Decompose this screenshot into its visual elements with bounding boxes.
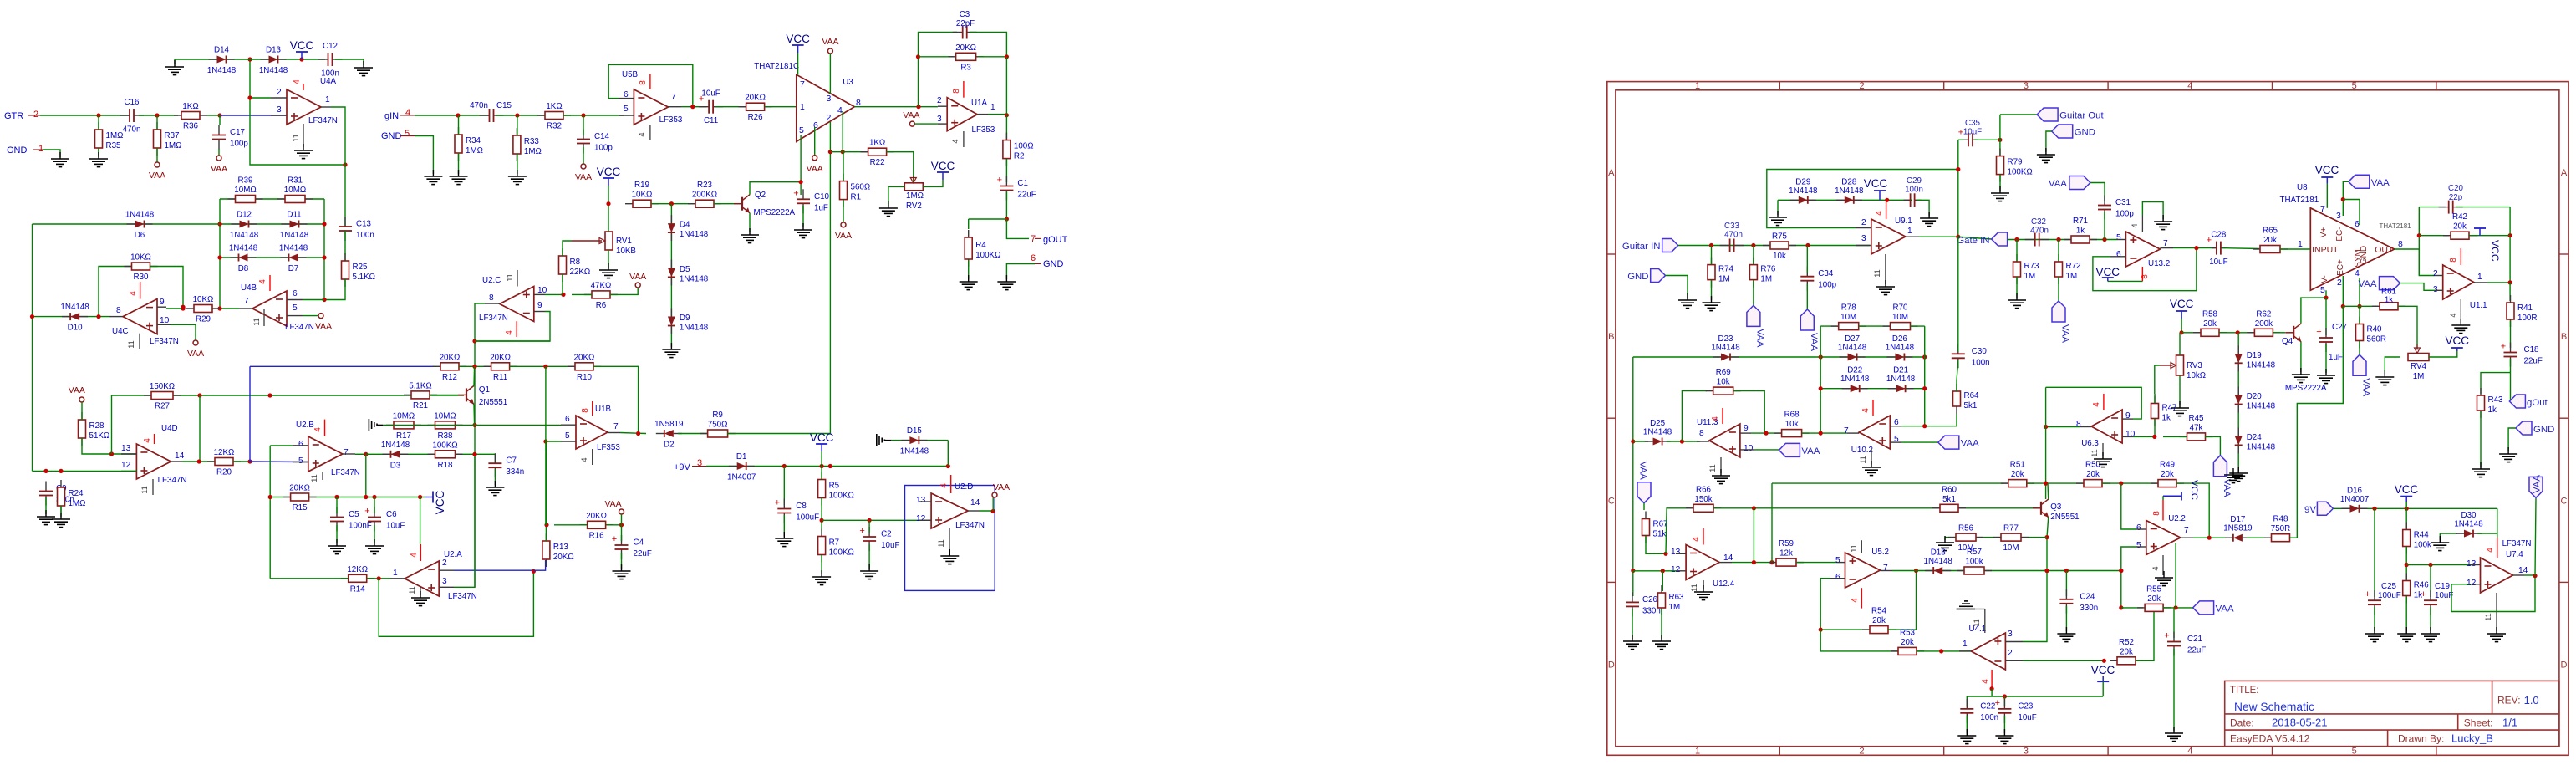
junction [515,113,519,117]
svg-text:+: + [2164,631,2169,641]
wire C34 top [1806,246,1808,273]
svg-text:1M: 1M [2413,372,2425,381]
wire blue to R13 [533,560,545,570]
junction [217,222,221,226]
svg-text:VCC: VCC [2170,298,2194,310]
wire U8 pin5 down [2325,290,2327,298]
title block box [2225,681,2559,746]
ground under C8 [775,532,793,547]
svg-text:4: 4 [2187,747,2192,757]
svg-text:11: 11 [506,273,514,282]
diode D14 [207,45,237,75]
wire pin12 row [1633,570,1676,572]
wire to R58 [2181,332,2201,334]
wire R69 right [1733,391,1764,433]
wire C7 to ground [494,469,496,485]
junction [799,180,803,184]
resistor R51 [2001,461,2034,487]
wire RV2 left lead [889,186,904,187]
svg-text:200KΩ: 200KΩ [692,191,717,200]
svg-text:RV1: RV1 [616,237,632,246]
svg-text:V-: V- [2320,275,2329,283]
resistor R31 [277,176,313,203]
wire U4D pin12 row [33,470,137,472]
wire R3 right [978,56,1006,58]
junction [2508,280,2512,284]
wire R74 gnd [1711,280,1713,300]
ground left of D30 [2431,536,2449,551]
svg-text:5: 5 [565,431,570,441]
frame inner [1616,90,2559,747]
junction [2119,569,2123,573]
svg-text:4: 4 [2449,313,2457,317]
svg-text:4: 4 [1851,598,1860,603]
svg-text:5: 5 [2136,541,2141,550]
svg-text:5: 5 [2116,233,2121,242]
svg-text:VCC: VCC [931,160,955,172]
wire R16 left stub [554,524,587,526]
wire VAA to R28 [81,402,83,420]
junction [322,255,326,259]
wire R2 to C1 [1005,159,1007,182]
svg-text:C21: C21 [2187,635,2202,644]
svg-text:U6.3: U6.3 [2081,439,2099,448]
wire R3 left [919,56,955,58]
svg-text:1N4148: 1N4148 [900,447,929,456]
svg-text:D20: D20 [2247,392,2263,401]
svg-text:470n: 470n [123,125,141,135]
svg-text:5k1: 5k1 [1942,495,1956,504]
net flag GND top [2052,125,2095,138]
wire D10 row [33,316,110,318]
wire R37 to VAA [156,148,158,162]
junction [181,306,185,310]
resistor R27 [144,382,181,411]
svg-text:100nF: 100nF [349,522,372,531]
resistor R13 [542,533,574,567]
junction [59,469,63,473]
svg-text:R64: R64 [1964,391,1980,400]
svg-text:100n: 100n [321,69,339,79]
wire VCC to row [2102,681,2104,696]
capacitor C2 [859,526,899,551]
svg-text:C23: C23 [2018,701,2034,711]
net flag VAA under R40 [2353,354,2371,396]
wire VAA to U3 pin3 [829,54,831,94]
svg-text:D17: D17 [2230,515,2245,524]
wire C2 gnd [868,544,870,569]
labels C32 [2030,217,2049,236]
ground right of C12 [354,61,373,76]
junction [2180,330,2184,334]
svg-text:R29: R29 [196,315,211,324]
diode D21 [1886,366,1916,393]
wire C23 gnd [2003,716,2005,733]
wire D23/D27/D26 row [1633,356,1926,358]
net flag GTR [4,110,40,121]
svg-text:1M: 1M [1718,275,1730,284]
wire U2.2 pin5 down [2121,547,2136,608]
wire long vertical x568 [474,303,476,587]
wire C22/C23 row [1967,696,2103,697]
junction [1631,439,1635,443]
ground under C4 [613,564,631,579]
svg-text:U2.D: U2.D [955,482,973,492]
svg-text:C35: C35 [1965,119,1981,128]
wire R72 top [2058,240,2059,262]
svg-text:5: 5 [2352,81,2357,91]
wire D19/D20/D24 chain [2237,333,2239,471]
junction [820,464,824,468]
junction [543,439,547,443]
wire C19 gnd [2430,607,2431,631]
wire C31 to pin5 [2104,212,2105,240]
svg-text:4: 4 [951,139,960,143]
wire C12 to ground [335,59,364,65]
junction [299,57,303,61]
resistor R37 [154,122,182,156]
resistor R1 [840,174,871,207]
ground under R33 [508,170,527,185]
svg-text:C19: C19 [2435,582,2450,591]
svg-text:C5: C5 [349,510,359,519]
wire D6 row [33,223,221,225]
svg-text:R47: R47 [2162,404,2177,413]
wire C17 to VAA [218,149,220,156]
junction [2324,296,2328,300]
wire C9 to ground [45,497,47,514]
title Date: [2230,717,2328,729]
junction [43,469,48,473]
wire to R53 [1820,630,1898,651]
wire C34 down [1806,284,1808,309]
wire pin14 to R59 [1732,562,1776,564]
junction [247,95,252,99]
svg-text:20k: 20k [1901,638,1914,647]
ground under U9.1 [1876,280,1895,295]
svg-text:13: 13 [916,496,926,505]
junction [544,523,548,527]
svg-text:LF353: LF353 [597,443,620,452]
diode D15 [900,426,929,456]
svg-text:C29: C29 [1907,176,1922,186]
wire pin7 node down to R15 row [365,454,367,497]
wire R9 to vertical [727,432,830,434]
diode D1 [727,452,756,482]
wire R47 to pin10 row [2154,419,2156,436]
ground under R79 [1991,186,2009,201]
wire R23 to Q2 [714,203,734,205]
wire R66 node down [1753,508,1754,563]
wire R61 row left [2343,305,2378,307]
junction [1663,552,1667,556]
junction [916,54,920,59]
resistor R77 [1993,524,2029,553]
resistor R54 [1862,607,1896,634]
svg-text:+: + [1995,698,2000,708]
svg-text:1: 1 [1963,640,1968,649]
junction [2119,569,2123,573]
wire VCC to 9V row [821,451,822,467]
wire out to R2 [1005,115,1007,140]
svg-text:C2: C2 [881,530,892,539]
wire R78 left [1820,325,1839,327]
net flag VAA at R45 [2213,456,2232,497]
resistor R4 [965,230,1000,267]
svg-text:VAA: VAA [315,323,332,332]
op-amp U1A [937,81,995,147]
net flag GND right [2516,421,2554,435]
resistor R5 [818,472,854,506]
resistor R63 [1658,585,1685,615]
wire U1A out [988,114,1006,115]
resistor R75 [1763,232,1796,262]
wire to D25 [1633,441,1648,442]
svg-text:51KΩ: 51KΩ [89,431,110,441]
svg-text:GND: GND [381,131,402,141]
capacitor C27 [2316,327,2333,352]
svg-text:100n: 100n [356,231,374,240]
junction [1764,431,1768,436]
junction [472,365,476,369]
svg-text:1M: 1M [2066,272,2078,281]
svg-text:VAA: VAA [187,349,204,359]
svg-text:1MΩ: 1MΩ [165,141,182,150]
ground under R63 [1652,635,1671,650]
svg-text:8: 8 [2076,420,2081,429]
svg-text:9: 9 [537,301,542,310]
VCC at D28 [1864,177,1888,200]
diode D4 [668,215,709,241]
wire RV4 right to VCC [2429,351,2457,357]
svg-text:R71: R71 [2073,217,2088,226]
wire U2.A output loop [379,571,533,636]
svg-text:2N5551: 2N5551 [2050,513,2079,522]
title New Schematic [2234,701,2314,713]
svg-text:3: 3 [2336,211,2341,221]
svg-text:VCC: VCC [597,166,621,178]
resistor R44 [2403,523,2431,554]
svg-text:22KΩ: 22KΩ [570,268,591,277]
wire VCC stem R58 [2181,319,2182,333]
svg-text:5.1KΩ: 5.1KΩ [409,381,431,390]
svg-text:R15: R15 [293,503,308,513]
capacitor C33 [1720,239,1744,252]
svg-text:1k: 1k [2162,414,2171,423]
wire VAA to U1.1 pin3 [2400,283,2436,291]
capacitor C19 [2421,589,2437,615]
svg-text:D21: D21 [1893,366,1908,375]
diode D11 [280,210,309,240]
svg-text:REV:: REV: [2497,695,2521,706]
svg-text:1N4148: 1N4148 [207,66,237,75]
svg-text:+: + [775,498,780,508]
svg-text:VAA: VAA [903,111,919,120]
svg-text:MPS2222A: MPS2222A [754,208,796,217]
svg-text:4: 4 [129,291,138,296]
svg-text:7: 7 [1844,426,1849,436]
junction [96,113,100,117]
wire C16 to R36 [139,115,178,116]
svg-text:8: 8 [581,408,590,413]
svg-text:RV4: RV4 [2411,362,2426,371]
svg-text:U7.4: U7.4 [2506,550,2523,559]
junction [30,314,34,319]
diode D5 [668,259,709,285]
wire GTR to C16 [40,115,130,116]
ground under U6.3 [2094,452,2112,467]
svg-text:R65: R65 [2263,227,2278,236]
svg-text:8: 8 [2398,239,2403,249]
svg-text:+: + [2316,327,2321,337]
svg-text:8: 8 [116,306,121,315]
svg-text:12k: 12k [1779,549,1793,558]
wire R74 top [1711,246,1713,265]
wire R58 to R62 [2219,332,2254,334]
svg-text:R76: R76 [1760,265,1776,274]
svg-text:R48: R48 [2273,515,2289,524]
svg-text:100k: 100k [1965,558,1983,567]
svg-text:U1A: U1A [971,99,988,108]
svg-text:1: 1 [325,95,330,105]
junction [1631,569,1635,573]
svg-text:VAA: VAA [2361,378,2371,396]
wire R55 right [2163,607,2193,609]
svg-text:1N4148: 1N4148 [1886,375,1916,384]
junction [2102,659,2106,663]
wire R24 to ground [60,506,62,517]
svg-text:100n: 100n [1905,186,1923,195]
svg-text:4: 4 [2151,566,2160,570]
wire U2.2 pin6 up [2121,483,2136,529]
wire Q4 collector [2301,298,2326,324]
svg-text:2: 2 [1861,218,1866,227]
op-amp U13.2 [2110,216,2173,282]
svg-text:10k: 10k [1773,252,1786,261]
svg-text:R39: R39 [238,176,253,186]
svg-text:R57: R57 [1967,548,1982,557]
svg-text:100KΩ: 100KΩ [829,548,854,558]
wire R67 to pin13 [1646,536,1666,553]
capacitor C32 [2025,233,2049,247]
resistor R76 [1749,258,1776,288]
resistor R35 [95,122,124,156]
svg-text:6: 6 [293,289,298,298]
wire GND top to ground [2046,131,2052,152]
svg-text:5: 5 [1835,556,1840,565]
wire U4B pin5 to VAA [303,315,318,317]
VCC rotated at R42 [2474,228,2501,262]
svg-text:47KΩ: 47KΩ [591,281,612,290]
wire VCC stem [608,186,609,204]
ground left of D29 [1769,211,1787,226]
svg-text:R49: R49 [2160,461,2175,470]
svg-text:U10.2: U10.2 [1851,446,1873,455]
svg-text:D19: D19 [2247,351,2262,360]
svg-text:R66: R66 [1696,485,1712,494]
svg-text:5: 5 [298,456,303,466]
resistor R57 [1957,548,1992,574]
svg-text:8: 8 [2141,274,2150,279]
junction [197,393,201,397]
junction [1922,354,1927,359]
svg-text:6: 6 [1835,573,1840,582]
svg-text:R40: R40 [2367,325,2383,334]
wire GND flag [43,150,60,157]
resistor R22 [861,139,894,168]
svg-text:20KΩ: 20KΩ [289,484,310,493]
wire R13 leads [545,541,547,559]
svg-text:EC+: EC+ [2336,259,2345,276]
resistor R48 [2264,515,2298,542]
junction [1998,138,2002,142]
wire R79 node vertical [1999,115,2001,156]
wire C3 right [970,33,1006,57]
svg-text:R7: R7 [829,538,840,548]
svg-text:+: + [997,176,1002,186]
junction [1661,569,1665,573]
wire R52 up to R55 row [2136,608,2154,660]
svg-text:C31: C31 [2115,198,2131,207]
VCC at C23 [2091,664,2115,681]
junction [2341,304,2345,309]
resistor R74 [1708,258,1734,288]
wire far left vertical [1632,357,1634,571]
wire U5.2 feedback left [1820,579,1871,630]
svg-text:4: 4 [505,330,514,335]
wire Q3 emitter down [2046,538,2048,571]
wire D2 to R9 [678,433,708,435]
junction [1005,217,1009,221]
wire U4A output down [331,107,345,165]
svg-text:D22: D22 [1847,366,1862,375]
svg-text:1: 1 [38,144,43,154]
svg-text:VAA: VAA [1961,439,1979,449]
svg-text:V+: V+ [2319,227,2329,238]
wire R51 row left [1772,482,2008,484]
svg-text:R51: R51 [2010,461,2025,470]
VCC rotated U2.2 [2163,480,2199,501]
svg-text:D16: D16 [2347,486,2363,495]
wire R61 to RV4 [2398,306,2417,349]
wire U3 pin4 down [842,111,843,152]
svg-text:2: 2 [827,113,832,123]
op-amp U2.2 [2136,500,2193,575]
ground rotated R17 [369,419,383,431]
op-amp U12.4 [1671,528,1735,592]
VCC above R5 [810,431,834,451]
svg-text:8: 8 [639,80,648,85]
svg-text:10kΩ: 10kΩ [2187,371,2206,380]
VCC at D16 [2395,483,2419,502]
wire pin6 row [1901,426,1957,427]
VAA at U4B pin5 [315,314,332,332]
wire U2.C out stub [475,303,485,304]
junction [155,113,159,117]
op-amp U10.2 [1844,400,1901,465]
IC U3 THAT2181C [754,62,861,141]
svg-text:1N4148: 1N4148 [1835,186,1864,196]
svg-text:100n: 100n [1972,358,1990,367]
ground under U11.3 [1712,469,1730,484]
wire R3 to output [1005,57,1007,115]
ground under RV1 [599,263,618,278]
wire R11-R10 [510,365,575,367]
svg-text:U5.2: U5.2 [1871,548,1889,557]
ground under Q4 [2292,368,2310,383]
wire R6 to VAA [610,288,638,294]
svg-text:100n: 100n [1980,713,1998,722]
